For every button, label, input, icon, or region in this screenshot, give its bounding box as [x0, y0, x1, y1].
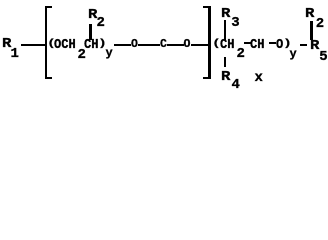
text ( open paren left: [47, 39, 56, 49]
left bracket bottom serif: [45, 77, 52, 79]
wire bond C to O: [167, 44, 184, 46]
node R3 label: [221, 7, 230, 21]
subscript x of bracket: [255, 71, 263, 85]
text OCH: [54, 38, 76, 52]
wire bond O to right bracket: [191, 44, 209, 46]
node R5 subscript 5: [319, 50, 327, 64]
left bracket top serif: [45, 6, 52, 8]
right bracket top serif: [203, 6, 211, 8]
wire vertical bond CH to R4: [224, 57, 226, 67]
subscript y right: [290, 48, 297, 60]
subscript y left: [106, 47, 113, 59]
wire bond y to O: [114, 44, 131, 46]
text CH: [250, 38, 264, 52]
wire vertical bond R3 to CH2: [224, 20, 226, 40]
node O carbonate right: [184, 39, 191, 51]
node R2 right subscript 2: [316, 17, 324, 31]
node O carbonate left: [131, 39, 138, 51]
wire bond R1 to left bracket: [21, 44, 45, 46]
node R1 label: [2, 37, 11, 51]
node R2 right label: [305, 7, 314, 21]
wire vertical bond R2 right to R5: [310, 21, 312, 40]
wire bond CH2 to CH: [244, 42, 251, 44]
text ) close paren left: [98, 39, 107, 49]
subscript 2 of CH2 right: [237, 47, 245, 61]
node R2 left label: [88, 8, 97, 22]
text O right: [276, 38, 283, 52]
text CH: [84, 38, 98, 52]
left bracket vertical: [45, 6, 48, 79]
node R4 label: [221, 70, 230, 84]
subscript 2 of OCH2: [78, 48, 86, 62]
text ) close paren right: [283, 39, 292, 49]
node R5 label: [310, 39, 319, 53]
node R3 subscript 3: [231, 16, 239, 30]
node R4 subscript 4: [232, 78, 240, 92]
text ( open paren right: [212, 39, 221, 49]
node R2 left subscript 2: [97, 16, 105, 30]
right bracket vertical: [208, 6, 211, 79]
wire vertical bond R2 left to CH: [89, 24, 91, 40]
wire bond y to R5: [300, 44, 307, 46]
wire bond O to C: [138, 44, 160, 46]
text CH right: [220, 38, 234, 52]
node R1 subscript 1: [11, 47, 19, 61]
wire bond CH to O: [269, 42, 276, 44]
node C carbonate: [160, 39, 167, 51]
right bracket bottom serif: [203, 77, 211, 79]
